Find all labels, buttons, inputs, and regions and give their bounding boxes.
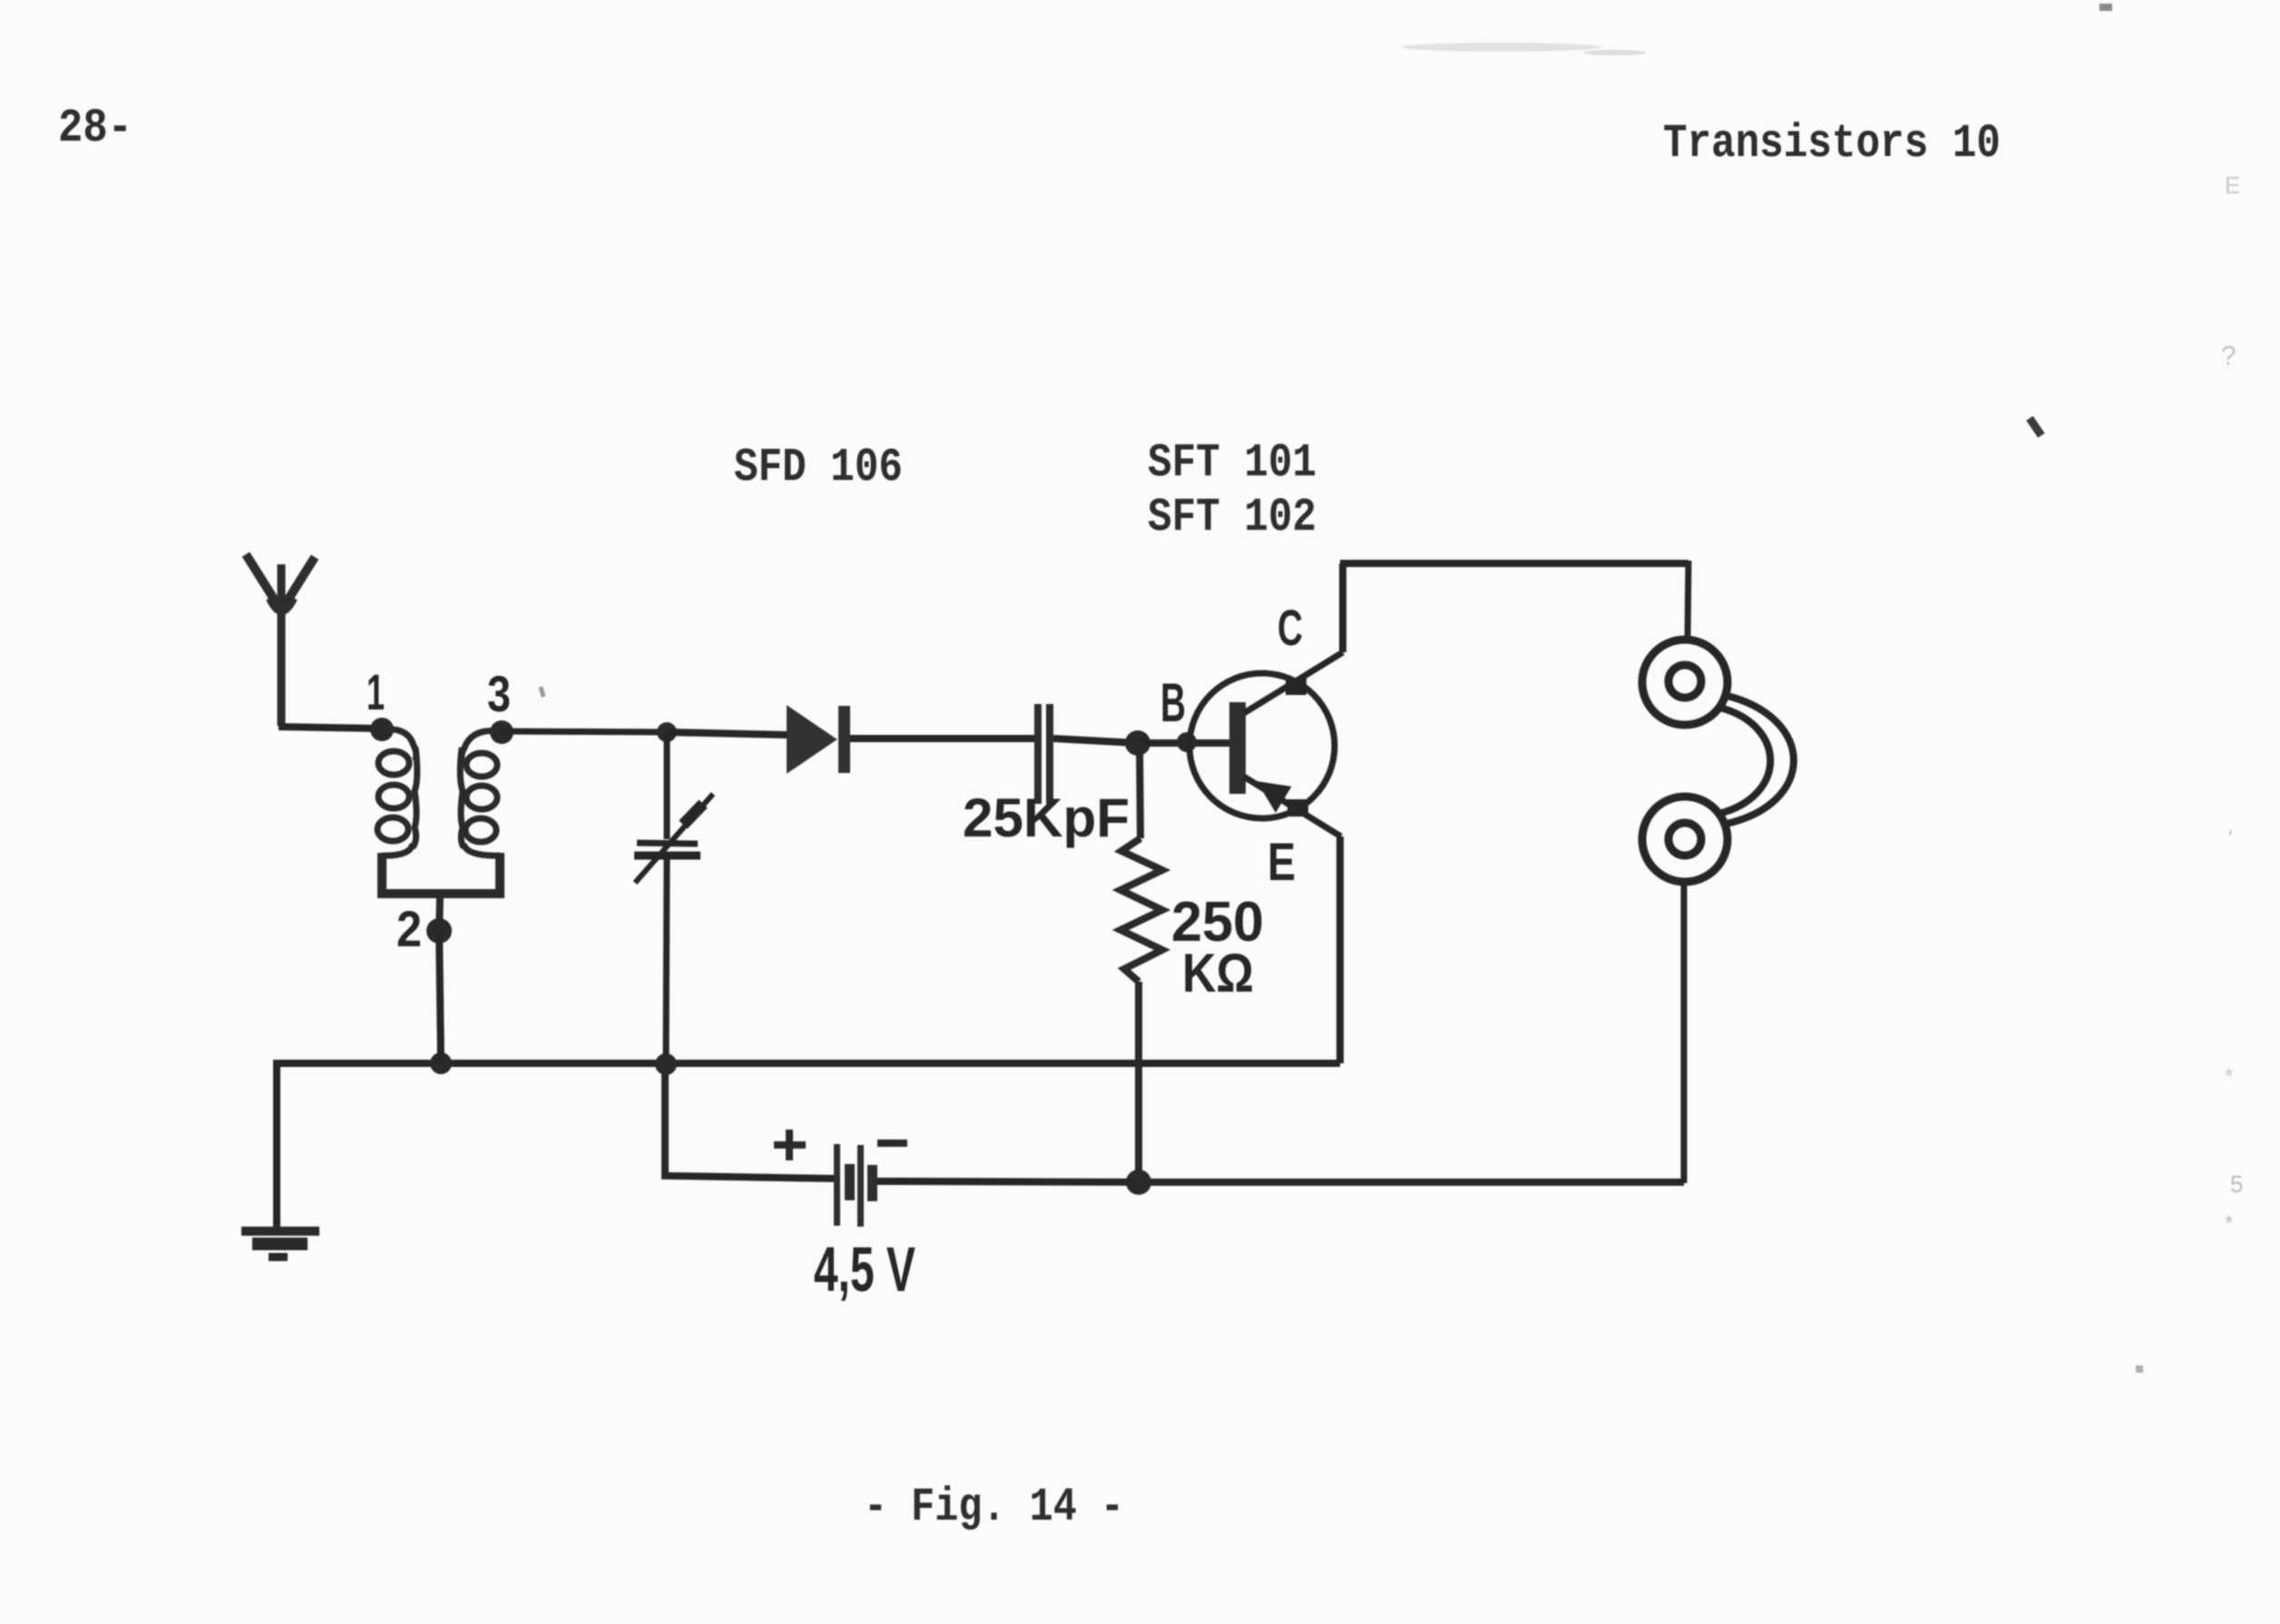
svg-text:*: * — [2225, 1064, 2233, 1089]
svg-text:SFT 102: SFT 102 — [1148, 491, 1316, 544]
variable capacitor C1 — [634, 732, 713, 1064]
wire node D to battery — [876, 1181, 1139, 1182]
svg-text:B: B — [1160, 672, 1186, 733]
svg-text:28-: 28- — [58, 102, 132, 155]
svg-text:1: 1 — [367, 663, 385, 720]
node A tuning junction — [657, 722, 677, 742]
diode D1 — [788, 707, 836, 772]
scan noise artifacts — [1402, 4, 2243, 1373]
wire bus to ground — [273, 1060, 280, 1229]
wire emitter to ground rail — [1336, 836, 1344, 1063]
node tap junction — [430, 1052, 452, 1074]
svg-text:SFD 106: SFD 106 — [734, 441, 903, 494]
node varcap junction — [655, 1053, 677, 1075]
ground rail bus — [277, 1060, 1340, 1067]
label minus — [877, 1140, 907, 1147]
wire tap to node 2 — [439, 895, 440, 931]
svg-text:?: ? — [2221, 341, 2236, 371]
wire node 2 to bus — [439, 931, 441, 1063]
battery B1 — [834, 1144, 877, 1227]
node B — [1125, 730, 1150, 756]
wire C2 to node B — [1053, 739, 1138, 743]
svg-text:KΩ: KΩ — [1182, 943, 1254, 1003]
transformer secondary winding L2 — [460, 730, 502, 856]
headphones — [1642, 640, 1794, 882]
transistor Q1 — [1189, 673, 1335, 818]
bottom rail wire right — [1139, 1179, 1684, 1186]
svg-text:25KpF: 25KpF — [963, 788, 1130, 848]
resistor R1 250K — [1120, 743, 1162, 1182]
svg-text:E: E — [2225, 171, 2240, 199]
antenna — [246, 554, 315, 726]
svg-text:SFT 101: SFT 101 — [1148, 436, 1316, 490]
wire collector to top rail — [1339, 563, 1346, 652]
wire battery to left corner — [665, 1066, 834, 1179]
svg-text:*: * — [2225, 1211, 2233, 1236]
svg-text:2: 2 — [396, 900, 422, 957]
node 2 — [426, 918, 452, 944]
node 1 — [370, 718, 394, 741]
svg-text:C: C — [1277, 599, 1303, 656]
svg-text:': ' — [2228, 825, 2233, 852]
svg-text:- Fig. 14 -: - Fig. 14 - — [864, 1481, 1124, 1534]
wire antenna to node 1 — [279, 727, 382, 729]
svg-text:E: E — [1267, 833, 1296, 892]
node 3 — [490, 720, 514, 744]
transformer core — [382, 853, 500, 894]
wire headphones to bottom rail — [1681, 883, 1688, 1183]
wire node B to transistor base — [1138, 739, 1230, 747]
svg-text:4,5 V: 4,5 V — [814, 1234, 915, 1305]
svg-text:3: 3 — [487, 665, 511, 722]
top rail wire — [1340, 560, 1688, 567]
transformer primary winding L1 — [377, 729, 417, 856]
capacitor C2 25KpF — [1034, 704, 1042, 804]
svg-text:5: 5 — [2230, 1170, 2243, 1198]
wire node 3 to node A — [502, 731, 669, 732]
wire node A to diode — [667, 732, 788, 735]
node D battery junction — [1126, 1169, 1151, 1195]
wire diode to capacitor C2 — [850, 735, 1035, 742]
svg-text:Transistors 10: Transistors 10 — [1663, 117, 2001, 171]
ground — [241, 1227, 319, 1261]
wire top rail to headphones — [1688, 561, 1688, 640]
label + — [774, 1130, 806, 1160]
